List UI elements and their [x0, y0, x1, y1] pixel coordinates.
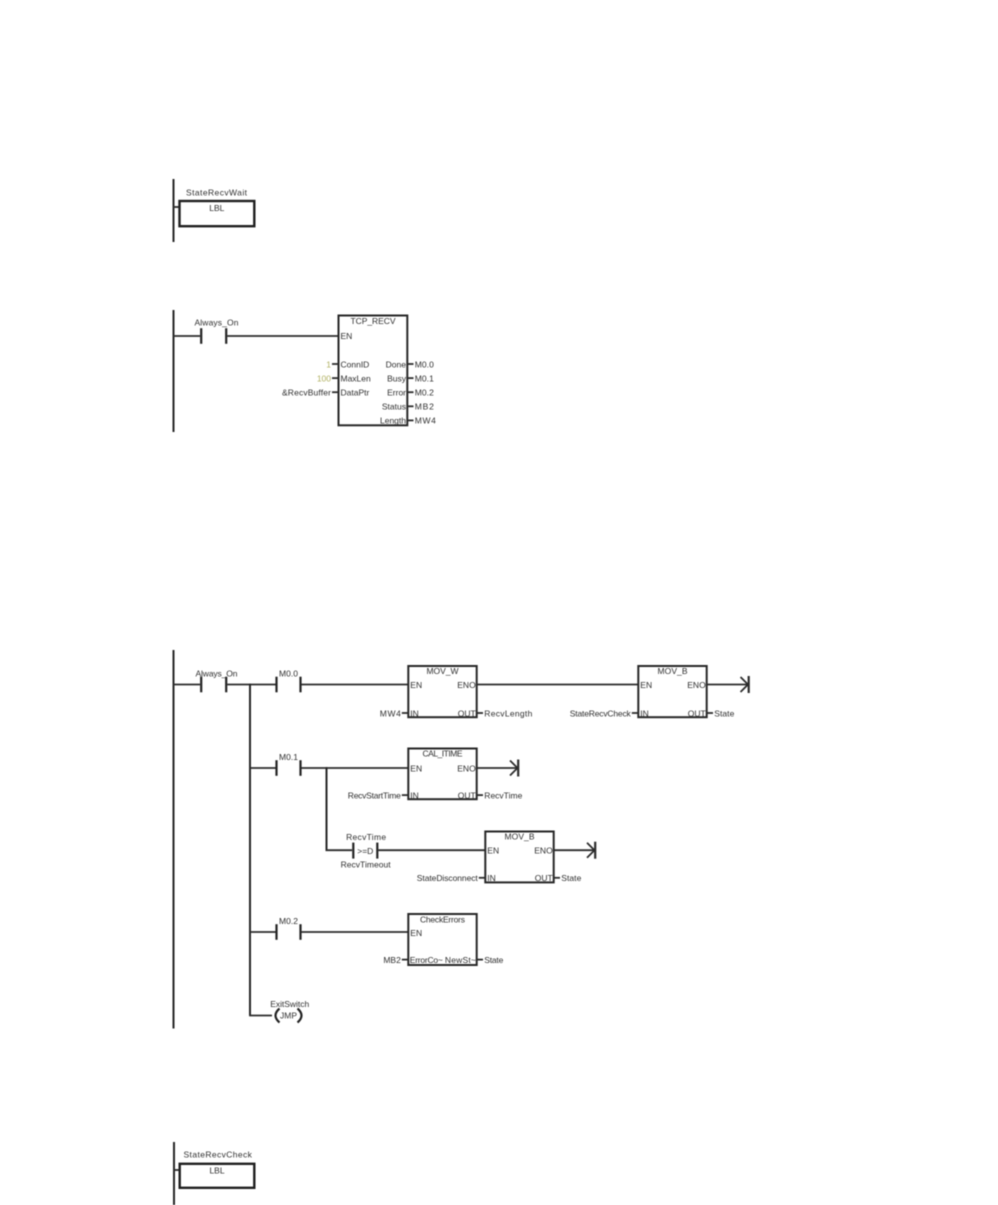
svg-text:>=D: >=D: [357, 846, 373, 856]
svg-text:EN: EN: [487, 846, 499, 856]
svg-text:NewSt~: NewSt~: [445, 955, 476, 965]
svg-text:JMP: JMP: [280, 1011, 297, 1021]
svg-text:RecvTime: RecvTime: [346, 832, 386, 842]
svg-text:ExitSwitch: ExitSwitch: [270, 999, 309, 1009]
svg-text:IN: IN: [487, 873, 496, 883]
svg-text:IN: IN: [410, 708, 419, 718]
svg-text:EN: EN: [640, 680, 652, 690]
svg-text:100: 100: [317, 373, 331, 383]
svg-text:CAL_ITIME: CAL_ITIME: [423, 748, 463, 758]
svg-text:M0.2: M0.2: [415, 388, 434, 398]
svg-text:IN: IN: [640, 708, 649, 718]
svg-text:Done: Done: [386, 359, 407, 369]
svg-text:EN: EN: [410, 680, 422, 690]
svg-text:OUT: OUT: [458, 708, 476, 718]
svg-text:ENO: ENO: [534, 846, 553, 856]
svg-text:OUT: OUT: [688, 708, 706, 718]
svg-text:Length: Length: [380, 416, 406, 426]
svg-text:State: State: [484, 955, 503, 965]
svg-text:MOV_W: MOV_W: [427, 666, 459, 676]
svg-text:Busy: Busy: [387, 373, 407, 383]
svg-text:M0.0: M0.0: [415, 359, 434, 369]
svg-text:LBL: LBL: [209, 1166, 224, 1176]
svg-text:MOV_B: MOV_B: [658, 666, 688, 676]
svg-text:MOV_B: MOV_B: [505, 831, 535, 841]
svg-text:M0.2: M0.2: [279, 916, 298, 926]
svg-text:RecvTimeout: RecvTimeout: [341, 859, 392, 869]
svg-text:Error: Error: [387, 388, 406, 398]
svg-text:IN: IN: [410, 790, 419, 800]
svg-text:MB2: MB2: [415, 402, 434, 412]
svg-text:StateRecvWait: StateRecvWait: [186, 188, 248, 198]
svg-text:CheckErrors: CheckErrors: [420, 914, 465, 924]
svg-text:RecvTime: RecvTime: [484, 790, 522, 800]
svg-text:DataPtr: DataPtr: [341, 388, 370, 398]
svg-text:RecvStartTime: RecvStartTime: [348, 790, 401, 800]
svg-text:StateRecvCheck: StateRecvCheck: [570, 708, 632, 718]
svg-text:TCP_RECV: TCP_RECV: [351, 316, 396, 326]
svg-text:Always_On: Always_On: [195, 318, 239, 328]
svg-text:M0.0: M0.0: [279, 669, 298, 679]
svg-text:ENO: ENO: [457, 680, 476, 690]
svg-text:OUT: OUT: [535, 873, 553, 883]
svg-text:ENO: ENO: [687, 680, 706, 690]
svg-text:EN: EN: [410, 928, 422, 938]
svg-text:State: State: [714, 708, 734, 718]
svg-text:LBL: LBL: [209, 203, 224, 213]
svg-text:ENO: ENO: [457, 763, 476, 773]
svg-text:EN: EN: [410, 763, 422, 773]
svg-text:StateRecvCheck: StateRecvCheck: [184, 1150, 253, 1160]
svg-text:M0.1: M0.1: [279, 752, 298, 762]
svg-text:StateDisconnect: StateDisconnect: [417, 873, 479, 883]
svg-text:MW4: MW4: [380, 708, 401, 718]
svg-text:MB2: MB2: [383, 955, 401, 965]
svg-text:OUT: OUT: [458, 790, 476, 800]
svg-text:ErrorCo~: ErrorCo~: [410, 955, 443, 965]
svg-text:ConnID: ConnID: [341, 359, 370, 369]
svg-text:EN: EN: [341, 331, 353, 341]
svg-text:RecvLength: RecvLength: [484, 708, 532, 718]
svg-text:MaxLen: MaxLen: [341, 373, 372, 383]
svg-text:&RecvBuffer: &RecvBuffer: [282, 388, 331, 398]
svg-text:Status: Status: [382, 402, 406, 412]
svg-text:1: 1: [326, 359, 331, 369]
svg-text:M0.1: M0.1: [415, 373, 434, 383]
svg-text:Always_On: Always_On: [196, 669, 238, 679]
svg-text:MW4: MW4: [415, 416, 436, 426]
svg-text:State: State: [561, 873, 581, 883]
